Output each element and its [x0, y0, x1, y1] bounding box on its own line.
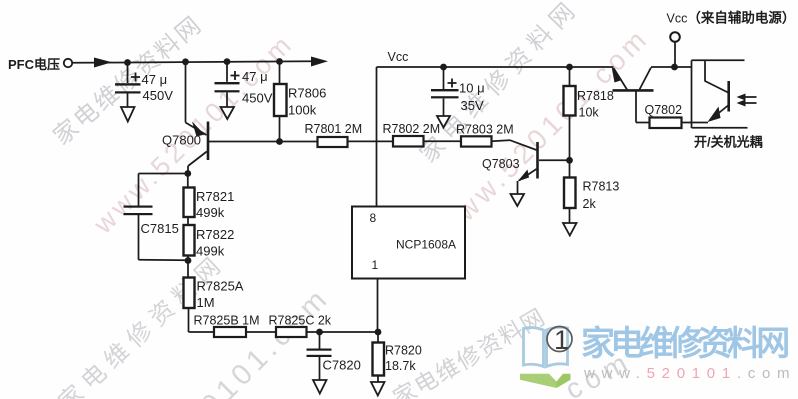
wire R7803 to Q7803 base [492, 140, 537, 150]
svg-text:C7820: C7820 [323, 358, 361, 373]
svg-text:47 μ: 47 μ [142, 72, 168, 87]
svg-text:Vcc（来自辅助电源）: Vcc（来自辅助电源） [667, 10, 796, 26]
svg-text:Q7802: Q7802 [645, 103, 683, 117]
wire resistor to optocoupler [682, 122, 709, 124]
node Q7803 collector [566, 157, 573, 164]
ground cap3 [437, 116, 450, 128]
arrow on PFC rail [94, 58, 112, 68]
Vcc top rail left segment [377, 66, 614, 68]
wire base to R7801 [280, 141, 318, 143]
ground R7813 [563, 223, 577, 236]
svg-text:R7803 2M: R7803 2M [456, 123, 514, 137]
resistor R7820 [373, 332, 385, 382]
svg-text:R7802 2M: R7802 2M [383, 122, 441, 136]
node cap2 [224, 58, 231, 65]
svg-text:18.7k: 18.7k [385, 359, 416, 373]
svg-text:2k: 2k [583, 197, 597, 211]
Vcc aux terminal [670, 32, 680, 67]
capacitor C3 10u 35V [431, 67, 459, 116]
svg-text:R7821: R7821 [196, 189, 234, 204]
logo green base [520, 374, 571, 388]
wire IC pin1 down [377, 279, 379, 333]
svg-text:R7825C 2k: R7825C 2k [269, 314, 332, 328]
svg-text:1: 1 [554, 325, 569, 355]
svg-text:家电维修资料网: 家电维修资料网 [581, 325, 788, 363]
resistor R7825A [184, 261, 215, 333]
svg-text:R7825B 1M: R7825B 1M [194, 314, 260, 328]
svg-text:499k: 499k [196, 205, 225, 220]
node Q7800 collector [184, 170, 191, 177]
node cap3 [440, 64, 447, 71]
resistor R7806 [274, 62, 287, 142]
node R7818 top [566, 64, 573, 71]
svg-text:47 μ: 47 μ [242, 69, 268, 84]
svg-text:R7822: R7822 [196, 227, 234, 242]
optocoupler box [692, 60, 748, 128]
resistor R7802 [393, 136, 424, 147]
IC NCP1608A box [352, 207, 465, 279]
node Q7800 emitter [182, 58, 189, 65]
node R7806 top [276, 58, 283, 65]
resistor R7821 [184, 174, 195, 226]
svg-text:Q7800: Q7800 [162, 133, 201, 148]
wire R7802-R7803 [424, 140, 462, 142]
svg-text:开/关机光耦: 开/关机光耦 [694, 135, 763, 150]
resistor R7803 [461, 136, 492, 146]
svg-text:1M: 1M [197, 295, 215, 310]
Vcc top rail right segment [651, 66, 692, 68]
svg-text:1: 1 [372, 258, 379, 272]
svg-text:www.520101.com: www.520101.com [583, 365, 796, 382]
logo circle 1 [547, 325, 572, 355]
logo book icon [524, 327, 568, 366]
ground C7820 [313, 380, 327, 394]
resistor R7825C [276, 327, 307, 337]
svg-text:Q7803: Q7803 [482, 157, 520, 171]
svg-text:450V: 450V [242, 91, 273, 106]
resistor R7813 [564, 160, 576, 222]
capacitor C2 47u 450V [215, 62, 240, 107]
optocoupler light arrows [737, 94, 757, 107]
capacitor C7820 [307, 332, 332, 380]
svg-text:35V: 35V [461, 98, 484, 113]
svg-text:R7820: R7820 [385, 344, 422, 358]
svg-text:R7806: R7806 [288, 86, 326, 101]
capacitor C7815 [124, 174, 189, 261]
svg-text:8: 8 [370, 211, 377, 225]
PFC input terminal [64, 59, 72, 67]
svg-text:10 μ: 10 μ [459, 81, 485, 96]
svg-text:R7818: R7818 [577, 89, 614, 103]
wire collector to C7815 [139, 173, 188, 175]
svg-text:Vcc: Vcc [388, 50, 409, 64]
wire R7801-R7802 [348, 140, 394, 142]
Vcc vertical rail [376, 67, 378, 207]
ground cap1 [121, 107, 135, 122]
ground cap2 [221, 107, 235, 119]
svg-text:R7801 2M: R7801 2M [305, 122, 363, 136]
resistor R7818 [564, 67, 576, 160]
transistor Q7800 [186, 62, 209, 174]
svg-text:R7813: R7813 [583, 180, 620, 194]
wire PFC rail [73, 61, 315, 63]
svg-text:PFC电压: PFC电压 [8, 57, 60, 72]
wire R7825B-R7825C [246, 331, 276, 333]
node R7820 top [375, 329, 382, 336]
transistor Q7802 [612, 67, 654, 123]
svg-text:10k: 10k [579, 106, 600, 120]
node R7822/R7825A [185, 257, 192, 264]
resistor at Q7802 base [650, 118, 682, 129]
ground Q7803 emitter [511, 194, 525, 206]
wire Q7800 base [209, 141, 280, 143]
node cap1 [124, 59, 131, 66]
transistor Q7803 [518, 142, 570, 194]
resistor R7801 [318, 137, 348, 147]
arrow PFC rail end [311, 57, 328, 67]
node C7820 [316, 329, 323, 336]
capacitor C1 47u 450V [115, 63, 141, 108]
svg-text:R7825A: R7825A [197, 279, 244, 294]
node Vcc aux [671, 64, 678, 71]
wire R7825C to R7820 [307, 331, 379, 333]
svg-text:家电维修资料网: 家电维修资料网 [415, 0, 585, 168]
resistor R7825B [214, 327, 246, 337]
svg-text:450V: 450V [143, 88, 174, 103]
resistor R7822 [184, 225, 195, 261]
svg-text:C7815: C7815 [141, 221, 179, 236]
optocoupler phototransistor [705, 60, 729, 122]
svg-text:100k: 100k [288, 103, 317, 118]
ground R7820 [371, 382, 385, 396]
svg-text:NCP1608A: NCP1608A [396, 238, 456, 252]
node base/R7806 [276, 138, 283, 145]
svg-text:499k: 499k [196, 244, 225, 259]
